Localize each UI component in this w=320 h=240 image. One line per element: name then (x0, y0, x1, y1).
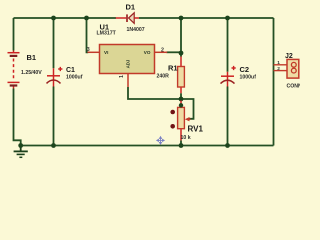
svg-text:ADJ: ADJ (125, 59, 130, 68)
regulator U1 LM317T body (88, 45, 168, 88)
svg-text:LM317T: LM317T (97, 31, 117, 37)
node VOUT top rail (179, 16, 184, 21)
origin marker (blue move cross) (157, 137, 164, 144)
svg-text:C1: C1 (66, 67, 75, 74)
svg-text:1000uf: 1000uf (240, 75, 257, 81)
svg-text:1N4007: 1N4007 (127, 27, 145, 33)
wire RV1 bottom (180, 140, 182, 145)
wire C1 branch (53, 18, 55, 146)
node C2 bottom (225, 143, 230, 148)
wire ADJ run (128, 87, 181, 99)
svg-text:RV1: RV1 (188, 125, 204, 134)
svg-text:J2: J2 (285, 53, 293, 60)
svg-text:2: 2 (161, 47, 164, 53)
battery B1 (8, 51, 20, 89)
svg-text:R1: R1 (168, 64, 178, 73)
wire U1 VO to R1 node (167, 51, 182, 53)
potentiometer RV1 (170, 101, 190, 141)
svg-text:B1: B1 (27, 53, 37, 62)
wire C2 branch (227, 18, 229, 146)
svg-text:2: 2 (277, 66, 280, 72)
wire bottom rail (ground net) (21, 145, 274, 147)
node C2 top (225, 16, 230, 21)
wire U1 VI branch (87, 18, 89, 52)
svg-text:D1: D1 (126, 3, 136, 12)
wire top rail (VIN net, interrupted by D1) (14, 17, 274, 19)
svg-text:1.25/40V: 1.25/40V (21, 70, 42, 76)
node ADJ / R1 / RV1 (179, 97, 184, 102)
node C1 top (51, 16, 56, 21)
diode D1 (116, 13, 139, 23)
svg-text:VI: VI (104, 50, 108, 55)
svg-text:CONN: CONN (287, 84, 301, 90)
svg-text:10 k: 10 k (181, 135, 191, 141)
node U1 VI feed (84, 16, 89, 21)
capacitor C2 (221, 66, 236, 87)
wire RV1 wiper loop (181, 99, 194, 119)
svg-text:240R: 240R (157, 73, 170, 79)
svg-text:1000uf: 1000uf (66, 74, 83, 80)
node C1 bottom (51, 143, 56, 148)
svg-text:VO: VO (144, 50, 151, 55)
node RV1 bottom (179, 143, 184, 148)
capacitor C1 (47, 67, 63, 87)
svg-text:1: 1 (119, 75, 125, 78)
node VO / R1 (179, 51, 184, 56)
connector J2 (274, 59, 299, 78)
ground (14, 146, 28, 158)
svg-text:1: 1 (277, 60, 280, 66)
wire left vertical to battery and ground jog (14, 18, 21, 146)
wire R1 vertical branch (180, 18, 182, 99)
resistor R1 (178, 57, 185, 94)
svg-text:C2: C2 (240, 65, 250, 74)
svg-text:3: 3 (87, 47, 90, 53)
wire right vertical to J2 (273, 18, 275, 146)
node ground / battery (18, 143, 23, 148)
